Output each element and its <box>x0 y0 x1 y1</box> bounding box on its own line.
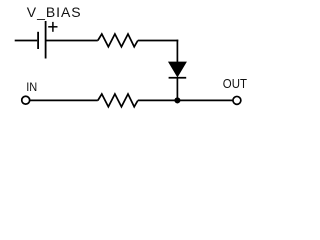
battery V_BIAS positive plate <box>45 21 47 59</box>
svg-text:OUT: OUT <box>223 76 247 91</box>
wire battery to R1 <box>46 40 97 42</box>
junction dot <box>174 97 180 103</box>
terminal OUT <box>233 96 241 104</box>
svg-text:IN: IN <box>26 80 37 94</box>
wire IN to R2 <box>30 99 98 101</box>
wire battery negative stub <box>15 40 38 42</box>
resistor R1 <box>98 34 138 47</box>
terminal IN <box>22 96 30 104</box>
diode D1 <box>169 62 187 77</box>
battery V_BIAS negative plate <box>37 32 39 49</box>
battery plus sign <box>48 22 57 32</box>
resistor R2 <box>98 94 138 107</box>
wire D1 cathode to junction <box>176 78 178 101</box>
wire corner down to diode D1 <box>176 40 178 64</box>
wire R1 to corner <box>138 40 178 42</box>
wire R2 to OUT <box>138 99 233 101</box>
svg-text:V_BIAS: V_BIAS <box>27 4 82 20</box>
